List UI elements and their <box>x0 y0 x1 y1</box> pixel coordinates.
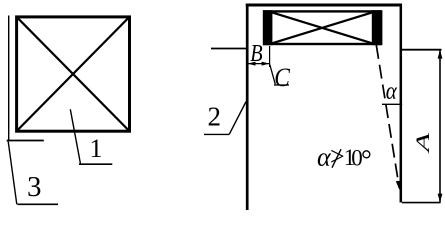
svg-text:B: B <box>250 41 263 67</box>
svg-text:2: 2 <box>208 102 222 132</box>
svg-text:α: α <box>386 78 398 105</box>
svg-text:1: 1 <box>90 134 103 163</box>
svg-text:A: A <box>412 133 433 155</box>
svg-text:3: 3 <box>27 171 42 203</box>
svg-text:C: C <box>274 63 290 92</box>
svg-text:°: ° <box>361 144 372 174</box>
